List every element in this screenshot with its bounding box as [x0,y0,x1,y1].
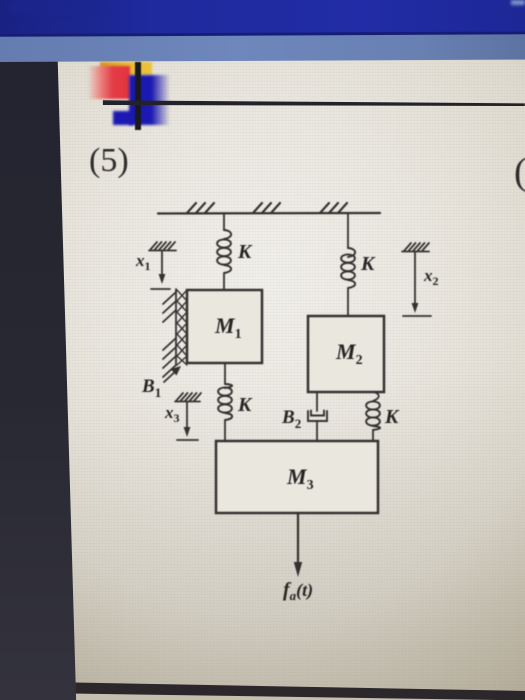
wall friction crosshatch B1 [177,290,187,365]
label M2 [335,339,363,368]
mass M2 [308,316,384,392]
force arrow fa(t) [294,513,302,577]
svg-text:x3: x3 [164,403,180,425]
wire spring K2 to M2 [347,288,349,316]
x2 reference hatch [402,243,429,252]
label K2 [360,253,376,275]
logo red block [86,66,130,99]
svg-text:x2: x2 [423,266,439,288]
wire spring K3 to M3 [224,420,226,441]
x1 reference hatch [149,242,176,251]
svg-text:K: K [237,394,253,416]
top bar darker left patch [6,0,98,12]
svg-text:K: K [237,241,253,263]
x3 datum line [177,439,198,441]
label B2 [281,407,301,431]
wire spring K4 to M3 [372,430,374,441]
label K1 [237,241,253,263]
problem number (5) [89,142,129,180]
x2 datum line [403,315,431,317]
wire ceiling to spring K2 [347,213,349,248]
top bar light notch right [511,0,525,5]
logo yellow block [100,62,152,75]
label x2 [423,266,439,288]
damper B2 piston [311,411,324,416]
wire spring K1 to M1 [223,273,225,290]
label x1 [135,251,151,273]
B1 pointer arrow [164,366,181,382]
spring K4 [366,401,380,430]
label K4 [384,406,400,428]
spring K2 [341,248,355,288]
partial parenthesis right edge [514,150,525,194]
top deep blue bar [0,0,525,37]
spring K3 [218,384,232,420]
damper B2 cylinder [308,411,327,421]
ceiling line [158,212,380,215]
x2 arrow [412,252,419,313]
logo black vertical bar [135,62,141,130]
svg-text:K: K [384,406,400,428]
x1 datum line [151,288,170,290]
svg-text:B2: B2 [281,407,301,431]
svg-text:B1: B1 [141,376,161,400]
logo blue block [129,75,170,125]
ceiling hatch group 3 [320,203,347,213]
x3 arrow [184,402,191,437]
svg-text:x1: x1 [135,251,151,273]
label K3 [237,394,253,416]
x1 arrow [159,251,166,284]
wall hatch strokes upper [163,292,176,322]
ceiling hatch group 2 [253,203,280,213]
wire ceiling to spring K1 [223,213,225,230]
mass M1 [187,290,262,363]
logo blue foot [113,111,133,125]
label x3 [164,403,180,425]
damper B2 rod upper [316,392,318,411]
spring K1 [217,230,231,273]
ceiling hatch group 1 [187,203,214,213]
label M3 [286,464,314,493]
damper B2 rod lower [316,421,318,441]
wire M1 to spring K3 [224,363,226,384]
svg-text:fa(t): fa(t) [283,579,313,603]
x3 reference hatch [175,393,201,402]
wall hatch strokes lower [163,338,176,377]
svg-text:K: K [360,253,376,275]
wire M2 to spring K4 [373,392,379,401]
label M1 [214,313,242,342]
wall line left of M1 [175,289,177,365]
mass M3 [216,441,378,513]
label B1 [141,376,161,400]
label fa(t) [283,579,313,603]
